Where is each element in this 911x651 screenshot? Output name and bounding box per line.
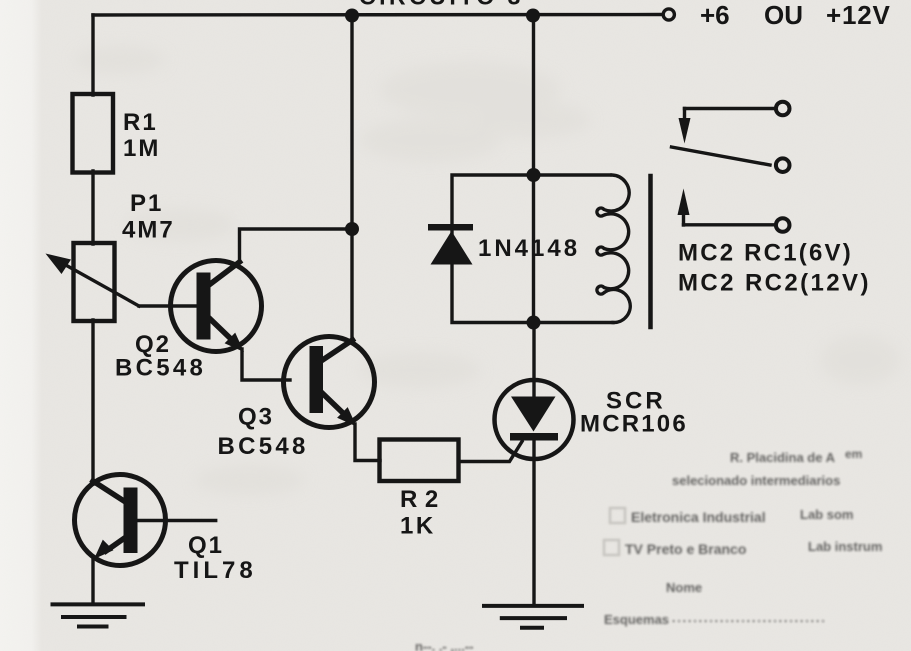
wire: R2 to SCR gate: [459, 442, 523, 462]
wire: relay NO contact lead: [684, 223, 775, 226]
wire: diode/relay coil loop: [452, 175, 613, 323]
resistor R2: [380, 440, 459, 482]
transistor Q2: [171, 261, 262, 353]
label R2 1K: [400, 486, 446, 540]
svg-text:1K: 1K: [400, 513, 436, 540]
svg-text:.............................: .............................: [672, 611, 827, 625]
label +6 OU +12V: [700, 0, 891, 30]
wire: R1 to P1: [91, 171, 94, 244]
relay actuation arrow (down): [679, 109, 691, 144]
svg-text:R1: R1: [123, 109, 158, 136]
node: junction on power rail right: [526, 9, 540, 23]
svg-text:Q3: Q3: [238, 404, 274, 431]
node: junction on main vertical: [345, 222, 359, 236]
svg-text:n--. .- ,...--: n--. .- ,...--: [415, 639, 473, 651]
svg-text:TIL78: TIL78: [174, 557, 257, 584]
svg-text:CIRCUITO 3: CIRCUITO 3: [359, 0, 524, 10]
wire: rail down through relay loop to SCR: [532, 15, 535, 323]
diode D1 1N4148: [428, 224, 473, 265]
label SCR MCR106: [580, 388, 688, 438]
ground (SCR): [484, 606, 582, 628]
svg-text:BC548: BC548: [218, 433, 309, 460]
label MC2 RC1(6V) / MC2 RC2(12V): [678, 240, 871, 297]
svg-text:R. Placidina de A: R. Placidina de A: [730, 450, 836, 465]
svg-text:MC2 RC1(6V): MC2 RC1(6V): [678, 240, 853, 267]
wire: rail corner down to R1: [91, 15, 94, 95]
svg-text:4M7: 4M7: [122, 217, 175, 244]
label P1 4M7: [122, 190, 175, 244]
svg-text:MCR106: MCR106: [580, 411, 688, 438]
terminal: relay NO contact: [776, 218, 790, 232]
relay core bar: [648, 176, 653, 327]
wire: +V power rail: [93, 13, 662, 17]
phototransistor Q1: [75, 475, 166, 566]
SCR U1 MCR106: [495, 380, 574, 459]
label R1 1M: [123, 109, 160, 162]
svg-text:P1: P1: [130, 190, 163, 217]
label Q2 BC548: [115, 331, 206, 382]
svg-text:BC548: BC548: [115, 355, 206, 382]
label Q3 BC548: [218, 404, 309, 461]
potentiometer P1: [74, 243, 115, 321]
wire: Q3 emitter down to R2: [355, 424, 380, 461]
svg-text:1N4148: 1N4148: [478, 235, 580, 262]
svg-text:+6: +6: [700, 0, 730, 30]
wire: P1 bottom to Q1 collector: [91, 320, 94, 484]
svg-text:Lab instrum: Lab instrum: [808, 539, 882, 554]
node: junction on power rail left: [345, 9, 359, 23]
svg-text:Eletronica Industrial: Eletronica Industrial: [631, 509, 766, 525]
relay coil K1: [597, 175, 630, 323]
svg-text:em: em: [845, 447, 862, 461]
svg-text:+12V: +12V: [826, 0, 891, 30]
wire: relay NC contact lead: [685, 107, 775, 110]
wire: P1 wiper to Q2 base: [139, 304, 199, 307]
svg-text:Lab som: Lab som: [800, 507, 853, 522]
wire: Q2 emitter down and right to Q3 base: [242, 349, 290, 380]
wire: SCR anode up to relay node: [532, 323, 535, 398]
svg-text:MC2 RC2(12V): MC2 RC2(12V): [678, 270, 871, 297]
svg-text:Esquemas: Esquemas: [604, 612, 669, 627]
P1 wiper arrow: [46, 254, 140, 307]
relay actuation arrow (up): [678, 189, 690, 226]
resistor R1: [73, 94, 114, 173]
svg-text:TV Preto e Branco: TV Preto e Branco: [625, 541, 746, 557]
label Q1 TIL78: [174, 532, 257, 584]
terminal: relay common contact: [776, 158, 790, 172]
svg-text:R2: R2: [400, 486, 446, 513]
ground (left): [53, 604, 144, 626]
svg-text:Q1: Q1: [188, 532, 224, 559]
svg-text:OU: OU: [764, 0, 803, 30]
terminal: +V supply input: [663, 9, 674, 20]
wire: Q1 base lead (open): [138, 519, 216, 522]
wire: main vertical from rail to Q3 collector: [350, 15, 353, 342]
node: relay/diode top junction: [527, 168, 541, 182]
transistor Q3: [284, 337, 375, 428]
svg-text:Nome: Nome: [666, 580, 702, 595]
wire: Q2 collector up and right to main vertical: [240, 229, 353, 262]
svg-text:1M: 1M: [123, 135, 160, 162]
terminal: relay NC contact: [776, 102, 790, 116]
wire: Q1 emitter to ground: [91, 557, 94, 604]
svg-text:selecionado intermediarios: selecionado intermediarios: [672, 473, 840, 488]
node: relay/diode bottom junction: [527, 316, 541, 330]
wire: SCR cathode down to ground: [532, 440, 535, 605]
relay moving blade: [672, 147, 771, 165]
